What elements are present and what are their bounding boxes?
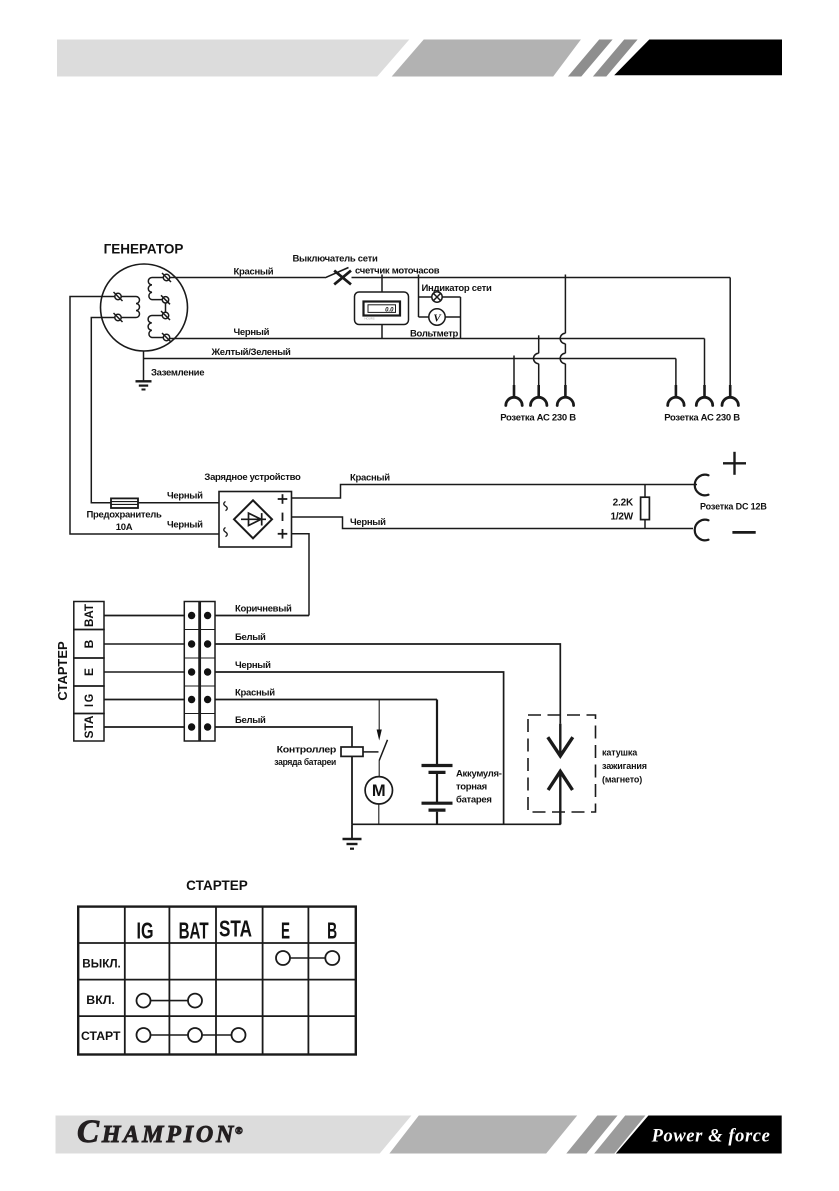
indicator branch wire (left vertical): [418, 275, 420, 318]
svg-text:Черный: Черный: [235, 660, 271, 671]
svg-text:Розетка DC 12В: Розетка DC 12В: [700, 502, 767, 512]
svg-text:ГЕНЕРАТОР: ГЕНЕРАТОР: [104, 242, 184, 257]
svg-text:торная: торная: [456, 782, 487, 793]
wire ground bus to ground symbol: [351, 824, 353, 839]
svg-text:10А: 10А: [116, 522, 133, 533]
wire link between stator windings: [165, 303, 167, 312]
wire red: switch to outlet 2: [352, 277, 731, 279]
svg-text:СТАРТЕР: СТАРТЕР: [186, 878, 248, 893]
ВЫКЛ connection E-B: [276, 951, 339, 965]
svg-text:Предохранитель: Предохранитель: [86, 510, 162, 521]
bridge rectifier U1: [219, 492, 292, 548]
wire lamp/voltmeter right vertical to black line: [460, 297, 462, 339]
wire Красный: connector to battery: [215, 699, 437, 701]
svg-text:Индикатор сети: Индикатор сети: [422, 283, 492, 294]
wire Белый: connector to ignition coil: [215, 644, 560, 724]
wire IG to connector: [104, 699, 184, 701]
AC outlet 2 pin 1 (earth): [668, 359, 684, 406]
svg-text:Красный: Красный: [350, 473, 390, 484]
hour meter: [355, 292, 409, 325]
svg-text:зажигания: зажигания: [602, 761, 647, 771]
svg-text:СТАРТЕР: СТАРТЕР: [55, 641, 70, 701]
svg-text:B: B: [82, 639, 96, 648]
svg-text:катушка: катушка: [602, 748, 638, 758]
svg-text:BAT: BAT: [179, 918, 209, 944]
svg-text:Заземление: Заземление: [151, 368, 204, 379]
svg-text:заряда батареи: заряда батареи: [274, 757, 336, 768]
wire STA to connector: [104, 726, 184, 728]
svg-text:Красный: Красный: [235, 688, 275, 699]
svg-text:Черный: Черный: [350, 517, 386, 528]
AC outlet 1 pin 3 (phase): [557, 275, 573, 406]
svg-text:Коричневый: Коричневый: [235, 604, 292, 615]
DC socket plus contact: [695, 452, 746, 496]
switch Выключатель сети: [292, 254, 377, 285]
wire Черный: connector to ground line: [215, 672, 504, 824]
fuse Предохранитель 10A: [86, 498, 162, 533]
wire red: bridge to DC socket: [292, 485, 698, 499]
ground Заземление: [136, 368, 205, 390]
wire controller to starter switch: [363, 751, 379, 753]
svg-text:Розетка АС 230 В: Розетка АС 230 В: [500, 413, 576, 424]
voltmeter: [410, 309, 461, 340]
svg-text:Черный: Черный: [167, 491, 203, 502]
indicator lamp: [419, 292, 461, 302]
СТАРТ connection IG-BAT-STA: [137, 1028, 246, 1042]
wire brown rail: bridge bottom to starter row 1: [292, 534, 310, 616]
svg-text:Розетка АС 230 В: Розетка АС 230 В: [664, 413, 740, 424]
ВКЛ connection IG-BAT: [137, 994, 203, 1008]
svg-text:ВКЛ.: ВКЛ.: [86, 993, 115, 1007]
AC outlet 2 pin 2 (neutral): [696, 339, 712, 406]
wire red: generator to switch: [170, 277, 325, 279]
wire B to connector: [104, 643, 184, 645]
svg-text:STA: STA: [82, 715, 96, 738]
svg-text:Аккумуля-: Аккумуля-: [456, 769, 502, 780]
ground bus wire (bottom): [352, 823, 561, 825]
svg-text:Выключатель сети: Выключатель сети: [292, 254, 377, 265]
svg-text:Зарядное устройство: Зарядное устройство: [204, 472, 301, 483]
starter switch table grid: [78, 907, 356, 1055]
wire fuse to bridge rectifier: [138, 502, 219, 504]
svg-text:Power & force: Power & force: [651, 1127, 771, 1147]
wire hour meter to black line: [381, 325, 383, 339]
resistor R1 2.2K 1/2W: [610, 485, 649, 529]
wire E to connector: [104, 671, 184, 673]
svg-text:2.2K: 2.2K: [613, 498, 634, 509]
svg-text:ВЫКЛ.: ВЫКЛ.: [82, 957, 121, 971]
ground (battery circuit): [343, 839, 362, 849]
starter terminal box E: [74, 658, 104, 686]
svg-text:Черный: Черный: [167, 520, 203, 531]
svg-text:STA: STA: [219, 916, 252, 942]
svg-text:батарея: батарея: [456, 795, 492, 806]
ignition coil (magneto) box: [528, 715, 596, 812]
wire black: generator to outlet 2: [170, 338, 705, 340]
svg-text:HOURS: HOURS: [365, 317, 375, 321]
wire from field winding bottom to fuse: [91, 318, 115, 503]
svg-text:IG: IG: [137, 918, 154, 944]
starter terminal box B: [74, 630, 104, 659]
svg-text:Черный: Черный: [234, 327, 270, 338]
AC outlet 2 pin 3 (phase): [722, 278, 738, 406]
DC socket minus contact: [695, 520, 756, 541]
connector block left half: [184, 602, 199, 742]
svg-text:Красный: Красный: [234, 267, 274, 278]
starter terminal box STA: [74, 714, 104, 742]
generator stator winding L2 (top): [148, 273, 171, 304]
svg-text:1/2W: 1/2W: [610, 512, 633, 523]
wire BAT to connector: [104, 615, 184, 617]
wire generator to ground: [143, 351, 145, 381]
svg-text:E: E: [82, 668, 96, 676]
svg-text:счетчик моточасов: счетчик моточасов: [355, 266, 440, 277]
wire Белый: connector to controller: [215, 727, 352, 747]
wire yellow/green: ground rail to outlet 2: [144, 358, 676, 360]
svg-text:BAT: BAT: [82, 603, 96, 627]
svg-text:Желтый/Зеленый: Желтый/Зеленый: [211, 347, 292, 358]
generator field winding L1: [114, 292, 140, 322]
generator stator winding L3 (bottom): [148, 311, 171, 342]
AC outlet 1 pin 1 (earth): [506, 356, 522, 406]
wire black: bridge to DC socket: [292, 517, 694, 529]
svg-text:Контроллер: Контроллер: [277, 745, 337, 756]
ignition coil up arrow: [548, 771, 572, 824]
svg-text:IG: IG: [82, 692, 96, 707]
svg-text:Вольтметр: Вольтметр: [410, 329, 459, 340]
svg-text:Белый: Белый: [235, 632, 266, 643]
connector block right half: [200, 602, 215, 742]
svg-text:M: M: [372, 782, 386, 800]
starter terminal box BAT: [74, 602, 104, 630]
wire red line to hour meter: [381, 275, 383, 293]
svg-text:СТАРТ: СТАРТ: [81, 1029, 121, 1043]
starter switch contact: [377, 700, 388, 777]
starter terminal box IG: [74, 686, 104, 714]
wire from field winding top to left rail: [70, 297, 219, 535]
battery charge controller: [341, 747, 363, 756]
svg-text:B: B: [327, 918, 337, 944]
svg-text:V: V: [433, 313, 442, 325]
generator G1 housing: [101, 264, 188, 351]
wire red down to battery: [436, 700, 438, 766]
AC outlet 1 pin 2 (neutral): [531, 335, 547, 405]
connector contact dots: [188, 612, 211, 731]
motor M: [365, 777, 392, 825]
svg-text:(магнето): (магнето): [602, 775, 642, 785]
ignition coil down arrow: [548, 724, 573, 756]
svg-text:E: E: [281, 918, 290, 944]
svg-text:0.0: 0.0: [385, 308, 394, 314]
wire Коричневый: connector to bridge rail: [215, 615, 309, 617]
battery Аккумуляторная батарея: [422, 766, 502, 825]
svg-text:Белый: Белый: [235, 715, 266, 726]
wire controller down to ground bus: [351, 756, 353, 824]
